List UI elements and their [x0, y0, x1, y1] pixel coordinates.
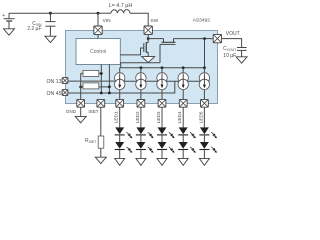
- svg-text:LED2: LED2: [135, 111, 140, 123]
- control block: [76, 39, 120, 65]
- wire R2 right lead: [99, 86, 110, 88]
- svg-text:ISET: ISET: [88, 109, 98, 114]
- pin ON13: [62, 78, 68, 84]
- svg-text:LED4: LED4: [177, 111, 182, 123]
- current source I5: [199, 68, 209, 100]
- wire VOUT to CVOUT: [222, 39, 242, 48]
- node R1-bias junction: [100, 72, 103, 75]
- node R2-left junction: [79, 86, 82, 89]
- svg-text:L= 4.7 µH: L= 4.7 µH: [109, 3, 133, 9]
- transistor Q2 PMOS sync: [160, 39, 176, 63]
- ground (GND pin): [75, 116, 86, 122]
- current source I1: [115, 68, 125, 100]
- wire left vertical to GND pin: [80, 73, 82, 99]
- ground (CVIN): [45, 36, 56, 42]
- wire RSET to ground: [100, 148, 102, 157]
- node R2-right junction: [108, 85, 111, 88]
- pin LED5: [201, 99, 209, 107]
- wire VOUT rail riser: [204, 39, 206, 68]
- svg-text:CVOUT: CVOUT: [223, 46, 236, 52]
- svg-text:2.2 µF: 2.2 µF: [27, 26, 41, 32]
- wire R2 leads: [81, 86, 83, 88]
- LED chain 2: [136, 107, 154, 158]
- resistor R1 (ON13 pull): [83, 70, 99, 76]
- wire VIN pin drop: [97, 13, 99, 26]
- pin VOUT: [213, 34, 221, 42]
- svg-text:SW: SW: [150, 18, 158, 24]
- node VOUT branch junction: [203, 37, 206, 40]
- wire control to PMOS gate: [120, 62, 160, 64]
- capacitor CVOUT 10uF: [237, 48, 247, 57]
- ground (LED chain 2): [136, 158, 146, 165]
- svg-text:ON 45: ON 45: [47, 91, 62, 97]
- svg-text:LED3: LED3: [156, 111, 161, 123]
- capacitor CVIN 2.2uF: [45, 13, 55, 36]
- wire current source rail: [120, 67, 205, 69]
- ground (LED chain 5): [199, 158, 209, 165]
- pin LED4: [179, 99, 187, 107]
- pin LED2: [137, 99, 145, 107]
- wire SW node to PMOS source: [148, 38, 163, 40]
- resistor RSET: [98, 136, 104, 148]
- ground (LED chain 4): [178, 158, 188, 165]
- ground (CVOUT): [236, 57, 247, 63]
- pin LED1: [116, 99, 124, 107]
- svg-text:Control: Control: [90, 49, 106, 55]
- pin GND: [77, 99, 85, 107]
- svg-text:10 µF: 10 µF: [223, 53, 236, 59]
- wire control bias verticals: [100, 65, 102, 94]
- current source I3: [157, 68, 167, 100]
- wire VIN pin to control: [97, 34, 99, 39]
- wire ON45 net: [68, 81, 175, 93]
- wire ISET to RSET: [100, 107, 102, 136]
- inductor L 4.7uH: [111, 10, 130, 14]
- wire rail stub to control corner: [120, 63, 122, 68]
- LED chain 3: [157, 107, 175, 158]
- pin VIN: [94, 26, 102, 34]
- pin ISET: [97, 99, 105, 107]
- resistor R2 (ON45 pull): [83, 83, 99, 89]
- wire inductor to SW: [130, 13, 148, 26]
- wire PMOS drain to VOUT pin: [174, 38, 214, 40]
- node VIN junction: [97, 12, 100, 15]
- node CVIN junction: [49, 12, 52, 15]
- wire ON13 net: [68, 80, 114, 82]
- ground (LED chain 3): [157, 158, 167, 165]
- pin ON45: [62, 90, 68, 96]
- LED chain 1: [115, 107, 133, 158]
- ground (RSET): [95, 157, 106, 163]
- ground (battery): [4, 29, 15, 35]
- wire current source link line: [115, 80, 210, 82]
- current source I4: [178, 68, 188, 100]
- node ON45 junctions: [100, 92, 103, 95]
- wire battery to VIN node: [9, 12, 98, 14]
- wire R1 leads: [81, 72, 83, 74]
- current source I2: [136, 68, 146, 100]
- pin SW: [144, 26, 152, 34]
- svg-text:VIN: VIN: [103, 18, 112, 24]
- svg-text:ON 13: ON 13: [47, 79, 62, 85]
- wire GND pin to ground: [80, 107, 82, 116]
- transistor Q1 NMOS: [120, 39, 148, 57]
- IC AS3492 body: [66, 31, 218, 104]
- ground (LED chain 1): [115, 158, 125, 165]
- svg-text:GND: GND: [66, 109, 77, 114]
- LED chain 5: [199, 107, 217, 158]
- svg-text:LED1: LED1: [114, 111, 119, 123]
- svg-text:RISET: RISET: [85, 138, 96, 144]
- svg-text:+: +: [2, 13, 5, 19]
- node rail junctions: [140, 66, 143, 69]
- pin LED3: [158, 99, 166, 107]
- node SW junction: [147, 37, 150, 40]
- ground (NMOS source): [142, 57, 155, 63]
- wire node to inductor: [98, 12, 111, 14]
- svg-text:VOUT: VOUT: [226, 31, 240, 37]
- svg-text:AS3492: AS3492: [193, 17, 211, 23]
- svg-text:LED5: LED5: [198, 111, 203, 123]
- LED chain 4: [178, 107, 196, 158]
- battery V1 (input supply): [2, 13, 14, 29]
- wire SW pin drop: [147, 34, 149, 39]
